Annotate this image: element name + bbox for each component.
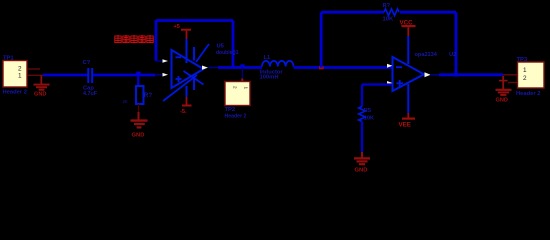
resistor R5 10K xyxy=(359,107,374,122)
svg-text:1: 1 xyxy=(243,87,248,90)
svg-text:2: 2 xyxy=(18,65,22,72)
power -5 below U5 xyxy=(180,97,192,115)
svg-text:Header 2: Header 2 xyxy=(516,91,541,97)
wire U5 output xyxy=(218,66,262,69)
svg-text:R?: R? xyxy=(383,3,391,9)
power VCC above U2 xyxy=(400,19,416,36)
node junction TP2 tap xyxy=(240,64,244,67)
wire junction up xyxy=(320,12,323,67)
svg-text:L1: L1 xyxy=(264,55,272,61)
svg-text:2: 2 xyxy=(233,86,238,89)
svg-text:U2: U2 xyxy=(449,52,456,58)
svg-text:2: 2 xyxy=(523,75,527,82)
svg-text:1: 1 xyxy=(523,67,527,74)
inductor L1 xyxy=(260,55,294,81)
TP1 pin 1 stub xyxy=(27,74,43,76)
wire top feedback right xyxy=(400,11,456,14)
svg-text:GND: GND xyxy=(496,98,508,104)
wire TP2 pin vertical xyxy=(241,68,243,80)
resistor R? 10K (feedback) xyxy=(383,3,400,23)
ground GND (below R5) xyxy=(354,152,370,164)
svg-text:10K: 10K xyxy=(364,116,374,122)
svg-text:opa2134: opa2134 xyxy=(415,52,438,58)
wire U2 V- pin xyxy=(407,84,409,113)
resistor R? xyxy=(123,86,153,104)
svg-text:GND: GND xyxy=(132,133,145,139)
wire feedback down to U2 output xyxy=(455,12,458,75)
svg-text:2K: 2K xyxy=(123,99,128,104)
wire feedback top xyxy=(156,19,233,22)
wire down to R5 xyxy=(361,85,363,107)
svg-text:+5: +5 xyxy=(174,24,180,30)
ground GND (TP3) xyxy=(496,76,512,95)
svg-text:Header 2: Header 2 xyxy=(225,113,247,119)
svg-text:TP2: TP2 xyxy=(225,107,236,113)
node junction feedback (red) xyxy=(319,66,324,70)
wire C1 to op-amp input xyxy=(93,74,155,77)
op-amp U2 xyxy=(387,57,431,91)
wire L1 to U2 xyxy=(294,66,393,69)
svg-text:100mH: 100mH xyxy=(260,75,279,81)
TP2 pin stub xyxy=(241,79,243,82)
svg-text:GND: GND xyxy=(355,167,368,172)
svg-text:GND: GND xyxy=(34,91,46,97)
wire U2 + input stub xyxy=(362,83,392,85)
wire U2 V+ pin xyxy=(407,36,409,64)
svg-text:U5: U5 xyxy=(217,44,225,50)
svg-text:4.7uF: 4.7uF xyxy=(83,91,98,97)
wire junction down to R? xyxy=(137,75,139,86)
connector TP1 xyxy=(3,56,28,96)
power +5 above U5 xyxy=(174,24,192,39)
svg-text:10K: 10K xyxy=(383,16,394,22)
R? lower pin xyxy=(138,104,140,112)
op-amp U5 xyxy=(163,39,210,101)
capacitor C? xyxy=(83,60,98,97)
connector TP2 xyxy=(225,82,251,120)
svg-text:Header 2: Header 2 xyxy=(3,90,28,96)
wire TP1 to C1 xyxy=(43,74,88,77)
node junction U2 output xyxy=(454,73,459,77)
svg-text:VEE: VEE xyxy=(399,122,411,129)
wire + input stub xyxy=(155,74,163,76)
wire feedback right vertical (to U5 output) xyxy=(232,21,235,68)
svg-text:1: 1 xyxy=(18,73,22,80)
wire - input stub xyxy=(156,60,163,62)
wire feedback left vertical (to U5 - input) xyxy=(155,20,158,61)
ground GND (below R?) xyxy=(131,112,148,127)
svg-text:double()1: double()1 xyxy=(216,50,239,56)
ground GND (TP1) xyxy=(34,76,50,90)
node junction at R? xyxy=(136,72,140,75)
svg-text:R?: R? xyxy=(144,93,152,99)
wire R5 to ground xyxy=(361,122,363,153)
svg-text:R5: R5 xyxy=(364,108,371,114)
TP3 pin 1 stub xyxy=(503,74,518,76)
connector TP3 xyxy=(516,57,544,97)
wire top feedback left xyxy=(321,11,384,14)
TP3 pin 2 stub xyxy=(508,82,518,84)
svg-text:C?: C? xyxy=(83,60,91,66)
TP1 pin 2 stub xyxy=(27,68,40,70)
wire U2 output to TP3 xyxy=(439,73,503,76)
red label 高通滤波器 (high-pass filter) xyxy=(115,35,153,43)
power VEE below U2 xyxy=(399,113,416,129)
svg-text:-5.: -5. xyxy=(180,109,187,115)
